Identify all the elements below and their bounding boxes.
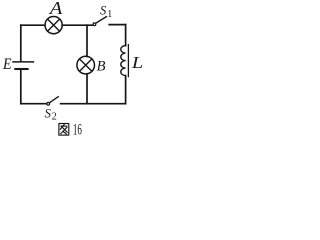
svg-text:16: 16 [73,122,82,138]
svg-text:L: L [131,53,143,72]
label S1 [100,3,112,20]
label A [49,0,64,18]
inductor L core line [127,45,129,77]
svg-text:1: 1 [107,9,112,20]
wire left branch lower [20,70,22,104]
wire top-middle segment [62,24,93,26]
label B [97,58,106,74]
inductor L coil [121,46,126,76]
wire right branch lower [125,76,127,104]
battery E negative plate [15,68,27,70]
wire bottom-right segment [61,103,126,105]
svg-text:B: B [97,58,106,74]
wire middle branch lower [86,74,88,104]
wire top-left segment [21,24,45,26]
label S2 [45,106,57,122]
svg-text:A: A [49,0,64,18]
caption figure number 16 [73,122,82,139]
caption 图16 : hanzi 图 drawn as paths [59,124,69,136]
lamp A [45,17,62,34]
wire right branch upper [125,25,127,46]
switch S1 [93,17,106,26]
svg-text:S: S [100,3,107,17]
battery E positive plate [13,61,33,63]
wire middle branch upper [86,25,88,56]
wire top-right segment [109,24,125,26]
svg-text:S: S [45,106,52,120]
svg-text:E: E [2,56,12,73]
label L [131,53,143,72]
switch S2 [47,97,58,106]
label E [2,56,12,73]
svg-text:2: 2 [52,112,57,123]
wire bottom-left segment [21,103,47,105]
wire left branch upper [20,25,22,61]
lamp B [77,56,95,74]
